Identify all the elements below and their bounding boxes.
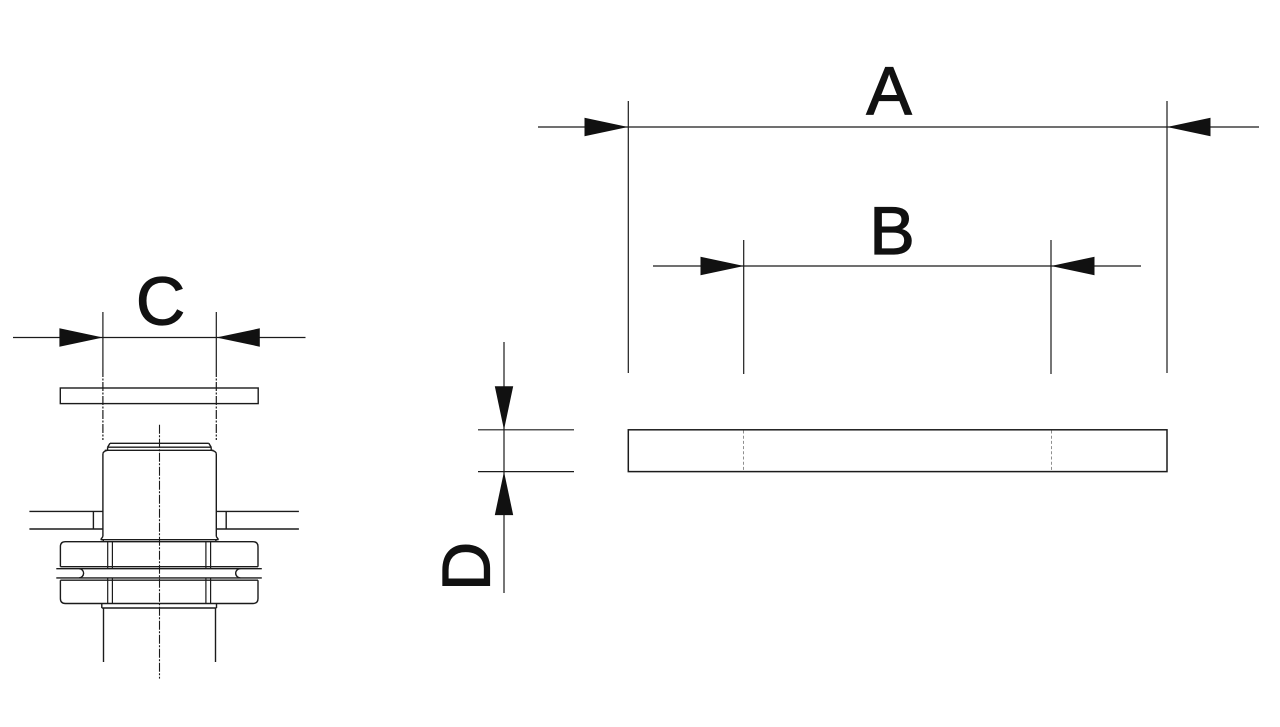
top plate (washer) bbox=[60, 388, 258, 404]
arrowhead A right bbox=[1167, 118, 1211, 136]
hidden hole line right bbox=[1051, 431, 1053, 472]
arrowhead D up bbox=[495, 472, 513, 515]
arrowhead C right bbox=[216, 328, 259, 346]
plate side view bbox=[628, 430, 1167, 472]
arrowhead B right bbox=[1051, 257, 1095, 275]
centerline bbox=[159, 425, 161, 679]
hidden hole line left bbox=[743, 431, 745, 472]
arrowhead C left bbox=[59, 328, 103, 346]
arrowhead A left bbox=[585, 118, 629, 136]
nut flats bbox=[108, 542, 211, 604]
groove slot bbox=[56, 569, 261, 578]
svg-text:A: A bbox=[866, 53, 912, 129]
dimension line A bbox=[538, 126, 1259, 128]
svg-text:B: B bbox=[869, 193, 914, 269]
arrowhead B left bbox=[701, 257, 745, 275]
shaft lines bbox=[104, 608, 216, 662]
extension line A left bbox=[627, 101, 629, 373]
extension line B right bbox=[1050, 240, 1052, 374]
extension line D top bbox=[478, 429, 574, 431]
extension line A right bbox=[1166, 101, 1168, 373]
panel lines right bbox=[216, 511, 299, 529]
nut ring 2 bbox=[60, 580, 258, 603]
dimension line B bbox=[653, 265, 1141, 267]
bushing lip bbox=[103, 443, 216, 453]
extension line C right bbox=[215, 312, 217, 368]
nut ring 1 bbox=[60, 542, 258, 567]
step band below nut bbox=[102, 604, 217, 609]
dimension line C bbox=[13, 337, 306, 339]
dimension line D bbox=[503, 342, 505, 593]
arrowhead D down bbox=[495, 386, 513, 430]
panel lines left bbox=[29, 511, 103, 529]
bushing body bbox=[101, 453, 219, 541]
svg-text:D: D bbox=[429, 542, 505, 591]
extension line C left bbox=[102, 312, 104, 368]
extension line D bottom bbox=[478, 471, 574, 473]
extension line B left bbox=[743, 240, 745, 374]
svg-text:C: C bbox=[136, 264, 185, 340]
